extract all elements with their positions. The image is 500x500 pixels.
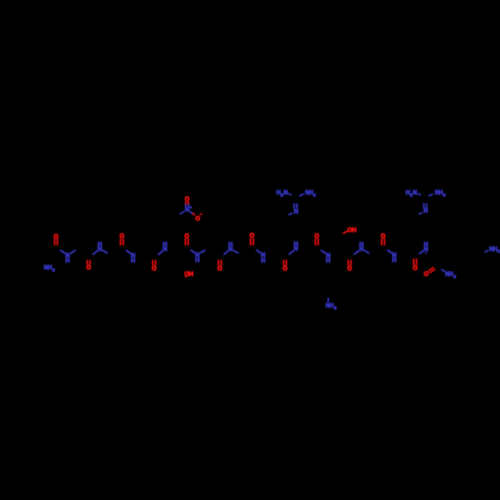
svg-text:O: O: [217, 266, 222, 273]
svg-text:H: H: [98, 241, 102, 248]
svg-text:N: N: [294, 209, 298, 216]
svg-text:N: N: [283, 190, 287, 197]
svg-text:O: O: [424, 271, 429, 278]
svg-text:H: H: [261, 257, 265, 264]
svg-text:O: O: [314, 233, 319, 240]
svg-text:N: N: [423, 208, 427, 215]
svg-text:O: O: [54, 233, 59, 240]
svg-text:H: H: [228, 241, 232, 248]
svg-text:O: O: [152, 266, 157, 273]
svg-text:H: H: [352, 227, 356, 234]
svg-text:H: H: [195, 257, 199, 264]
svg-text:O: O: [413, 265, 418, 272]
svg-text:O: O: [86, 265, 91, 272]
svg-text:O: O: [347, 266, 352, 273]
svg-text:H: H: [163, 242, 167, 249]
svg-text:H: H: [359, 241, 363, 248]
svg-text:+: +: [189, 205, 192, 210]
svg-text:H: H: [424, 242, 428, 249]
svg-text:O: O: [185, 196, 190, 203]
svg-text:H: H: [326, 258, 330, 265]
svg-text:N: N: [413, 190, 417, 197]
svg-text:H: H: [189, 271, 193, 278]
svg-text:O: O: [283, 266, 288, 273]
svg-text:H: H: [131, 258, 135, 265]
svg-text:O: O: [195, 216, 200, 223]
svg-text:H: H: [294, 241, 298, 248]
svg-text:H: H: [392, 257, 396, 264]
svg-text:O: O: [120, 233, 125, 240]
svg-text:O: O: [250, 233, 255, 240]
svg-text:H: H: [65, 258, 69, 265]
svg-text:−: −: [200, 211, 203, 216]
svg-text:O: O: [184, 233, 189, 240]
svg-text:O: O: [381, 233, 386, 240]
